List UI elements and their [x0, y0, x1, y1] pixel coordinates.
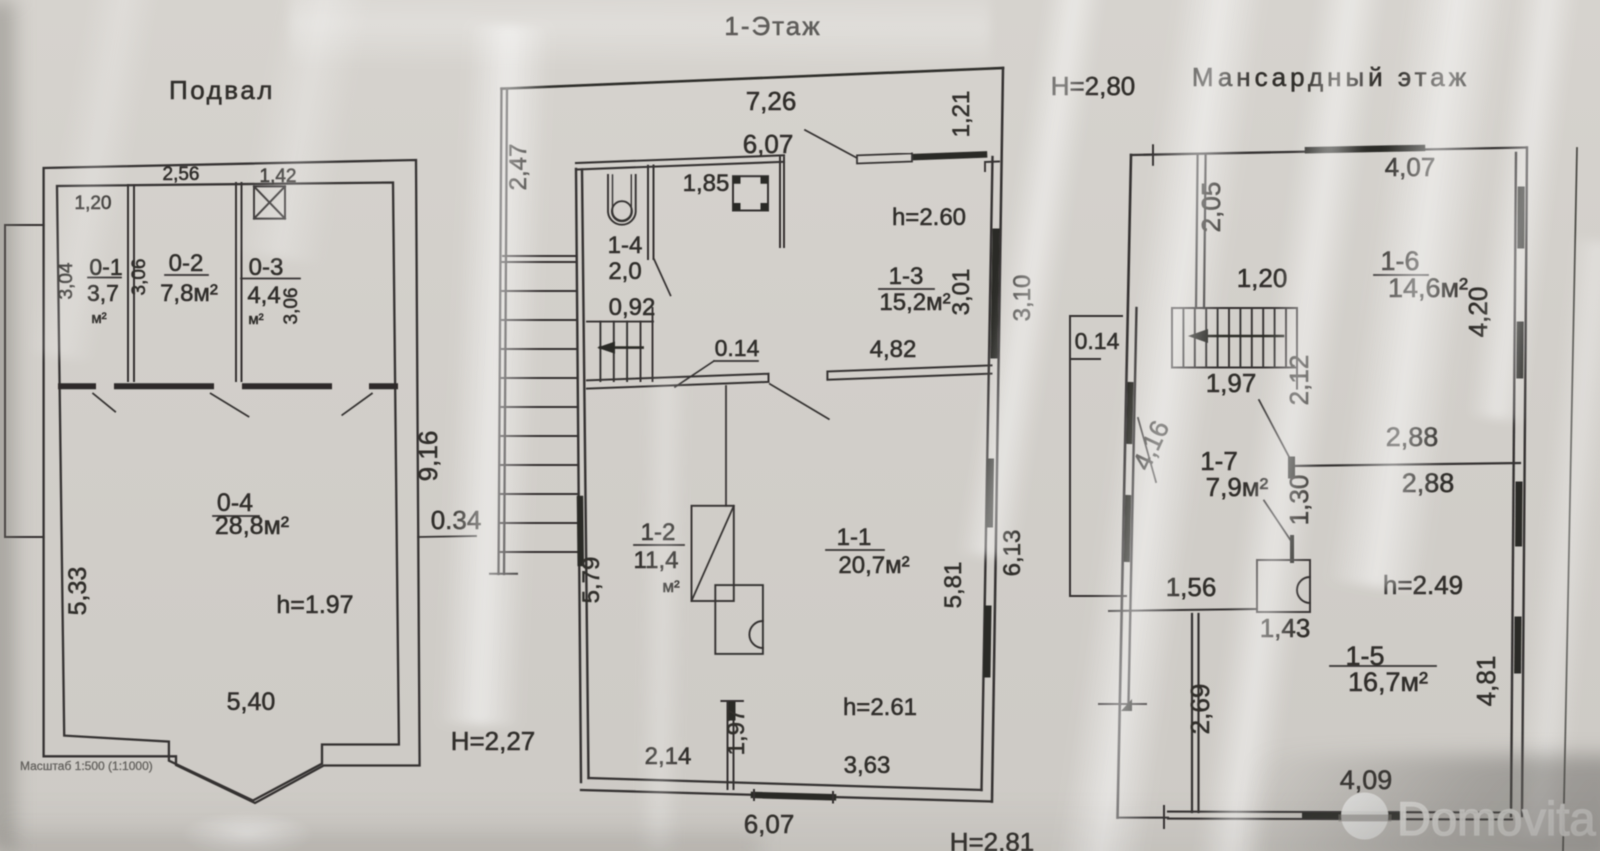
door swing 1-3/1-1 [770, 384, 829, 419]
closet rect 1-2 [692, 506, 734, 601]
attic left wall tick [1099, 703, 1146, 705]
terrace bottom line [503, 255, 575, 257]
partition 1,97 bottom [728, 701, 734, 789]
underline 0-3 [241, 278, 300, 280]
attic right window bar 2 [1516, 325, 1523, 375]
bottom window end caps [754, 790, 833, 803]
leader 0.14 [675, 361, 714, 387]
small stair top line [587, 321, 653, 323]
svg-text:3,01: 3,01 [948, 269, 975, 316]
underline 0.14 [714, 360, 758, 362]
bathtub inner line [613, 175, 632, 220]
door swing terrace [805, 130, 856, 158]
svg-text:Масштаб 1:500 (1:1000): Масштаб 1:500 (1:1000) [20, 759, 153, 773]
svg-text:2,0: 2,0 [608, 258, 641, 285]
main block top wall lower line [576, 162, 784, 170]
svg-text:5,33: 5,33 [64, 567, 92, 616]
attic bottom wall upper line [1168, 811, 1512, 814]
toilet box attic [1257, 560, 1310, 612]
wall stub below swing [1290, 537, 1294, 561]
svg-text:1-1: 1-1 [837, 524, 872, 551]
svg-text:4,81: 4,81 [1471, 656, 1501, 707]
svg-text:4,4: 4,4 [247, 282, 280, 309]
bottom wall outer line [581, 790, 992, 802]
attic top wall [1131, 148, 1526, 156]
partition wall 0-1|0-2 [128, 185, 134, 381]
window bar right wall room 1-3 [994, 232, 996, 355]
bathtub drain circle [612, 201, 632, 221]
main block top wall upper line [576, 155, 784, 163]
attic left wall tick blob [1121, 699, 1132, 711]
bathtub 1-4 [608, 175, 636, 225]
wall 1-3/1-1 left segment [587, 374, 769, 389]
terrace inner corner jog [985, 162, 999, 172]
svg-text:1-4: 1-4 [608, 232, 643, 259]
attic bottom wall lower line [1168, 818, 1512, 821]
svg-text:2,69: 2,69 [1185, 684, 1215, 735]
svg-text:7,8м²: 7,8м² [160, 280, 218, 307]
partition wall 0-2|0-3 [236, 183, 242, 381]
door lintel row segment 4 [372, 383, 395, 389]
svg-text:0.14: 0.14 [715, 335, 760, 361]
svg-text:Подвал: Подвал [169, 75, 275, 105]
svg-text:6,07: 6,07 [743, 129, 794, 159]
chimney box 0.14 attic [1070, 316, 1126, 596]
main block left wall outer [576, 169, 581, 782]
bottom wall inner line [589, 778, 982, 790]
left porch protrusion [5, 225, 44, 537]
attic bottom wall left single [1118, 817, 1169, 819]
svg-text:3,63: 3,63 [844, 752, 891, 779]
attic right wall inner [1511, 153, 1516, 816]
attic stair right edge extension [1296, 308, 1298, 389]
outer left strip wall outer line [499, 89, 502, 575]
dark door bar on left wall [577, 499, 584, 563]
door swing stair to 1-6 [1259, 400, 1290, 459]
inner boundary basement [57, 183, 399, 801]
door swing 1 [93, 394, 115, 412]
svg-text:1,21: 1,21 [948, 91, 975, 138]
attic left wall window bar 1 [1129, 385, 1130, 441]
small stair arrowhead [597, 342, 615, 354]
svg-text:Н=2,27: Н=2,27 [451, 726, 536, 756]
underline 1-6 [1374, 274, 1428, 276]
wall 1,56 [1109, 609, 1257, 611]
window bar terrace south wall [916, 155, 984, 158]
door lintel row segment 1 [61, 383, 93, 389]
attic left wall inner [1129, 308, 1137, 702]
svg-text:7,26: 7,26 [746, 86, 797, 116]
door lintel row segment 3 [245, 383, 329, 389]
svg-text:1,85: 1,85 [683, 170, 730, 197]
partition 1,97 dark blob [729, 705, 736, 717]
door swing 2 [211, 394, 249, 417]
toilet arc attic [1297, 577, 1310, 603]
attic left wall window bar 2 [1127, 498, 1128, 559]
wall 1-3/1-1 right segment [827, 365, 991, 379]
watermark circle bar [1342, 815, 1388, 822]
wall 2,69 [1192, 614, 1199, 812]
svg-text:0,92: 0,92 [609, 294, 656, 321]
partition 1,97 top cap [721, 700, 743, 702]
door sill terrace [857, 153, 912, 163]
small stair right edge [652, 308, 654, 381]
attic stair arrowhead [1188, 329, 1208, 343]
window bar right wall 1-1 lower [987, 609, 988, 674]
partition right of bath [648, 166, 654, 260]
watermark circle [1341, 793, 1388, 840]
svg-text:0.14: 0.14 [1075, 328, 1120, 354]
wall 2,88 between 1-6 and 1-5 [1290, 463, 1520, 466]
attic stair box [1172, 308, 1297, 368]
attic right window bar 3 [1515, 485, 1522, 543]
outer left strip wall inner line [504, 89, 507, 574]
svg-text:1,97: 1,97 [723, 709, 750, 756]
attic right window bar 1 [1517, 190, 1524, 245]
attic right window bar 4 [1514, 620, 1521, 670]
door swing 3 [342, 394, 372, 415]
underline 0-2 [165, 274, 208, 276]
svg-text:0-3: 0-3 [249, 254, 284, 281]
stair treads left strip [500, 262, 578, 552]
stove square [733, 176, 768, 210]
attic left wall outer [1118, 155, 1132, 818]
underline 1-2 [634, 544, 684, 546]
closet diagonal [692, 506, 734, 601]
svg-text:h=1.97: h=1.97 [276, 591, 353, 619]
main block left wall inner [582, 170, 589, 779]
attic bottom wall corner tick [1163, 806, 1165, 828]
attic top-left tick [1152, 145, 1154, 165]
svg-text:9,16: 9,16 [413, 431, 443, 482]
bottom window bar [754, 795, 833, 797]
wall 2,05 [1196, 155, 1206, 308]
outer boundary basement [44, 160, 420, 803]
inner right wall [982, 157, 993, 790]
fixture box 1-2 [715, 585, 763, 654]
attic right wall outer [1522, 148, 1527, 817]
small stair treads [600, 322, 640, 381]
paper fold edge line [1563, 148, 1577, 851]
svg-text:4,82: 4,82 [870, 336, 917, 363]
svg-text:1-3: 1-3 [889, 263, 924, 290]
underline 1-1 [826, 549, 884, 551]
underline 0-1 [88, 277, 121, 279]
svg-text:28,8м²: 28,8м² [215, 512, 289, 540]
door lintel row segment 2 [117, 383, 211, 389]
svg-text:15,2м²: 15,2м² [879, 289, 950, 316]
svg-text:20,7м²: 20,7м² [838, 552, 909, 579]
svg-text:0-2: 0-2 [169, 250, 204, 277]
line above closet [725, 386, 727, 506]
outer right wall [992, 68, 1003, 802]
svg-text:3,06: 3,06 [281, 288, 302, 325]
svg-text:5,79: 5,79 [578, 557, 605, 604]
svg-text:м²: м² [248, 311, 263, 328]
underline 0-4 [213, 515, 259, 517]
svg-text:2,56: 2,56 [163, 164, 200, 185]
door swing attic left wall [1138, 418, 1156, 482]
door swing to 1-5 [1264, 501, 1290, 541]
fixture arc [749, 621, 763, 648]
underline 1-3 [879, 288, 934, 290]
attic stair arrow [1193, 335, 1283, 338]
svg-text:3,06: 3,06 [129, 259, 150, 296]
svg-text:5,40: 5,40 [227, 688, 276, 716]
wall 2,88 left end block [1288, 460, 1295, 475]
outer top wall [502, 68, 1004, 89]
attic stair treads [1183, 308, 1286, 368]
attic bottom window bar [1305, 813, 1400, 819]
underline 1-5 [1330, 665, 1436, 667]
strip bottom tick [490, 573, 517, 575]
small stair arrow [600, 346, 643, 349]
stove corner blocks [733, 176, 768, 210]
tick 0.34 [418, 536, 476, 537]
window bar right wall 1-1 upper [990, 462, 991, 524]
chimney box with X [254, 186, 285, 218]
svg-text:16,7м²: 16,7м² [1348, 667, 1428, 697]
attic top window bar [1308, 148, 1422, 150]
svg-text:h=2.60: h=2.60 [892, 204, 966, 231]
svg-text:5,81: 5,81 [940, 562, 967, 609]
door swing 1-4 [654, 259, 671, 296]
top wall right end stub [780, 157, 784, 247]
svg-text:h=2.61: h=2.61 [843, 694, 917, 721]
